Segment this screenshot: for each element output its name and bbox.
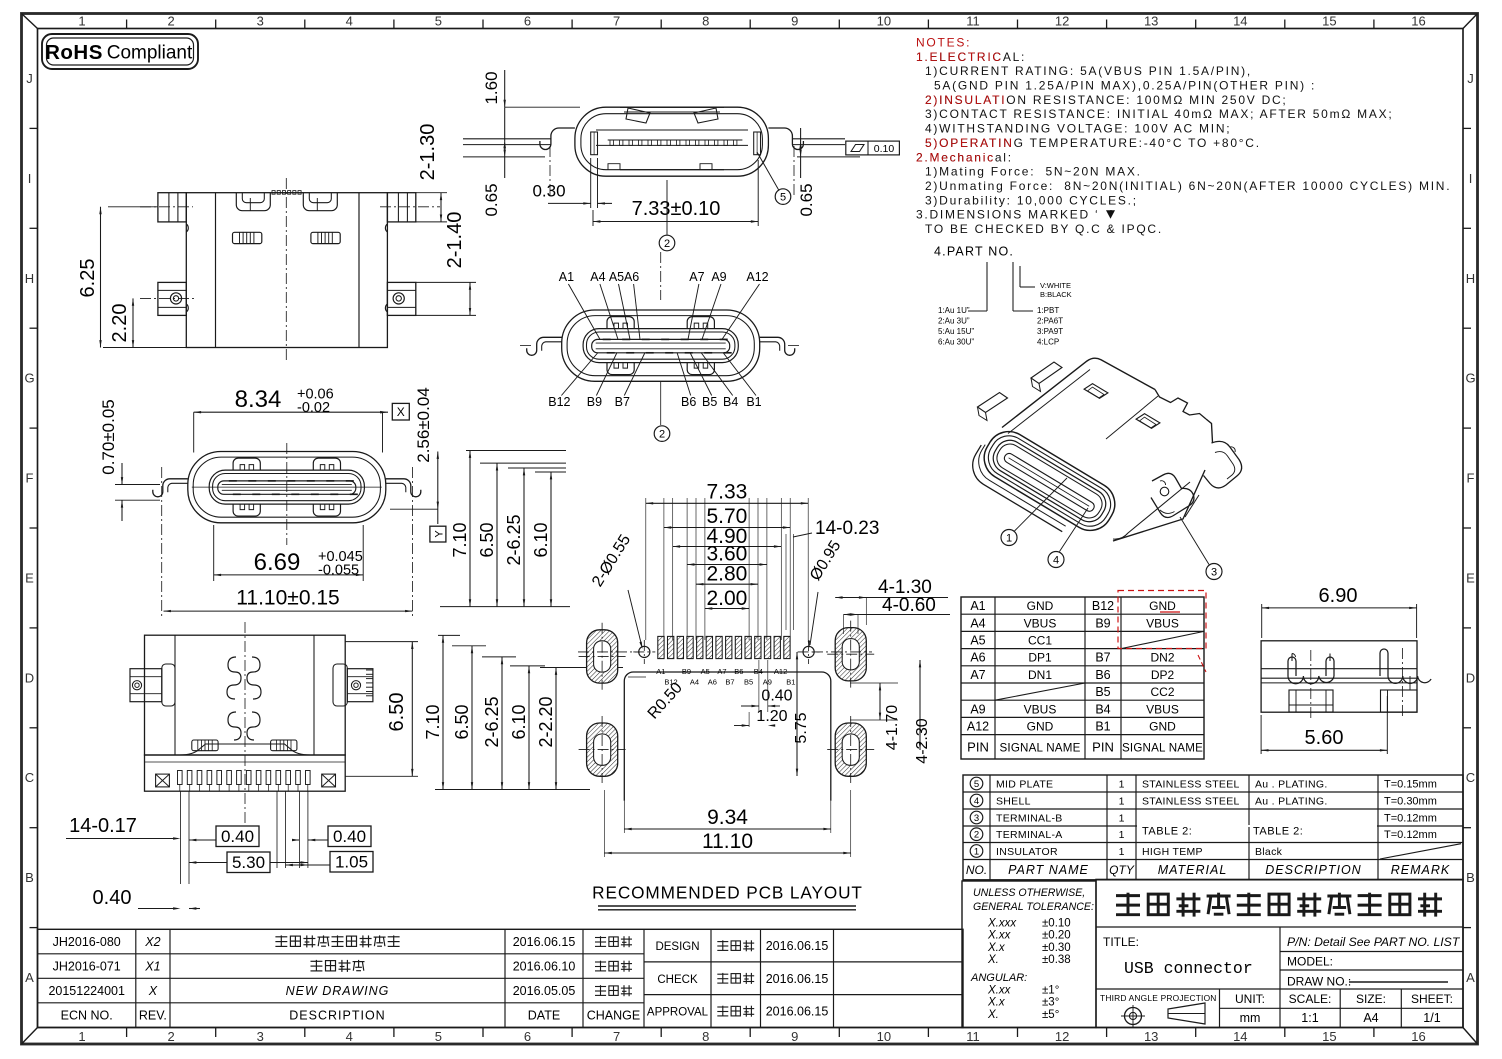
svg-text:GND: GND [1149,720,1176,734]
svg-text:0.10: 0.10 [874,143,895,155]
svg-text:A4: A4 [590,270,605,284]
svg-text:2.00: 2.00 [706,587,747,610]
svg-text:X: X [397,405,405,419]
svg-text:B7: B7 [1095,651,1110,665]
svg-text:H: H [1466,271,1475,286]
svg-text:X.x: X.x [987,942,1006,954]
svg-text:A: A [25,970,34,985]
svg-text:F: F [26,471,34,486]
svg-text:4-1.70: 4-1.70 [884,705,901,750]
svg-text:NO.: NO. [966,863,987,877]
svg-text:ECN NO.: ECN NO. [61,1009,113,1023]
svg-text:1: 1 [1119,813,1125,825]
svg-text:6.69: 6.69 [254,549,301,576]
svg-text:±3°: ±3° [1042,997,1059,1009]
svg-text:DN2: DN2 [1150,651,1174,665]
svg-text:5.60: 5.60 [1305,727,1344,749]
svg-text:15: 15 [1322,14,1336,29]
svg-text:5: 5 [435,1029,442,1044]
svg-text:INSULATOR: INSULATOR [996,846,1058,858]
svg-text:VBUS: VBUS [1024,702,1057,716]
svg-text:Au . PLATING.: Au . PLATING. [1255,796,1328,808]
svg-text:20151224001: 20151224001 [48,984,125,998]
svg-text:3: 3 [257,1029,264,1044]
svg-text:1:PBT: 1:PBT [1037,306,1059,315]
svg-text:1:1: 1:1 [1301,1011,1318,1025]
svg-text:B7: B7 [725,678,734,687]
svg-text:10: 10 [877,14,891,29]
svg-text:DESCRIPTION: DESCRIPTION [289,1009,385,1023]
svg-text:6:Au 30U”: 6:Au 30U” [938,338,974,347]
svg-text:B5: B5 [1095,685,1110,699]
svg-text:CC2: CC2 [1150,685,1174,699]
svg-text:A6: A6 [970,651,985,665]
svg-text:2)INSULATI: 2)INSULATI [925,93,1006,107]
svg-text:TERMINAL-B: TERMINAL-B [996,813,1063,825]
svg-text:2.Mechanic: 2.Mechanic [916,150,995,164]
svg-text:A9: A9 [970,702,985,716]
svg-text:16: 16 [1411,14,1425,29]
svg-text:4:LCP: 4:LCP [1037,338,1059,347]
svg-text:2-6.25: 2-6.25 [482,696,502,747]
svg-text:3: 3 [974,813,979,824]
svg-text:3: 3 [257,14,264,29]
svg-text:9.34: 9.34 [707,806,748,829]
svg-text:A1: A1 [656,667,665,676]
svg-text:I: I [28,171,32,186]
svg-text:DESCRIPTION: DESCRIPTION [1265,863,1361,877]
svg-text:C: C [1466,770,1475,785]
svg-text:6: 6 [524,1029,531,1044]
svg-text:4: 4 [974,796,979,807]
svg-text:11: 11 [966,1029,980,1044]
svg-text:CHECK: CHECK [657,974,698,986]
svg-text:6.25: 6.25 [77,259,99,298]
svg-text:4.PART NO.: 4.PART NO. [934,244,1014,258]
svg-text:11.10: 11.10 [702,830,753,853]
svg-text:STAINLESS STEEL: STAINLESS STEEL [1142,796,1240,808]
svg-text:2: 2 [659,429,665,441]
svg-text:B12: B12 [1092,599,1114,613]
svg-text:D: D [1466,670,1475,685]
svg-text:3: 3 [1211,567,1217,579]
svg-text:MID PLATE: MID PLATE [996,779,1053,791]
svg-text:11.10±0.15: 11.10±0.15 [236,587,339,610]
svg-text:2: 2 [974,830,979,841]
svg-text:B: B [1466,870,1475,885]
svg-text:SIGNAL NAME: SIGNAL NAME [1122,741,1203,754]
svg-text:5A(GND PIN 1.25A/PIN MAX),0.25: 5A(GND PIN 1.25A/PIN MAX),0.25A/PIN(OTHE… [934,79,1316,93]
svg-text:6.90: 6.90 [1319,585,1358,607]
svg-text:9: 9 [791,14,798,29]
svg-text:12: 12 [1055,14,1069,29]
svg-text:A1: A1 [559,270,574,284]
svg-text:MATERIAL: MATERIAL [1158,863,1228,877]
svg-text:A7: A7 [717,667,726,676]
svg-text:B4: B4 [723,395,738,409]
svg-text:USB connector: USB connector [1124,959,1253,978]
svg-text:12: 12 [1055,1029,1069,1044]
svg-text:3:PA9T: 3:PA9T [1037,327,1063,336]
svg-text:0.30: 0.30 [532,182,565,201]
svg-text:7: 7 [613,1029,620,1044]
svg-text:DESIGN: DESIGN [655,941,699,953]
svg-text:A9: A9 [711,270,726,284]
svg-text:14-0.17: 14-0.17 [69,815,137,837]
svg-text:B6: B6 [681,395,696,409]
svg-text:4-0.60: 4-0.60 [882,595,936,616]
svg-text:1: 1 [1006,533,1012,545]
svg-text:±0.30: ±0.30 [1042,942,1071,954]
svg-text:SIZE:: SIZE: [1356,992,1386,1006]
svg-text:B6: B6 [734,667,743,676]
svg-text:V:WHITE: V:WHITE [1040,281,1071,290]
svg-text:SHEET:: SHEET: [1411,992,1453,1006]
svg-text:APPROVAL: APPROVAL [647,1007,709,1019]
svg-text:X.: X. [987,954,999,966]
svg-text:A: A [1466,970,1475,985]
svg-text:2-1.40: 2-1.40 [444,212,466,269]
svg-text:T=0.30mm: T=0.30mm [1384,796,1437,808]
svg-text:TABLE 2:: TABLE 2: [1142,826,1192,838]
svg-text:4: 4 [346,1029,353,1044]
svg-text:13: 13 [1144,14,1158,29]
svg-text:HIGH TEMP: HIGH TEMP [1142,846,1203,858]
svg-text:B4: B4 [1095,702,1110,716]
svg-text:2-6.25: 2-6.25 [504,514,524,565]
svg-text:QTY: QTY [1109,863,1135,877]
svg-text:F: F [1467,471,1475,486]
svg-text:G: G [24,371,34,386]
svg-text:E: E [1466,571,1475,586]
svg-text:C: C [25,770,34,785]
svg-text:9: 9 [791,1029,798,1044]
svg-text:A12: A12 [967,720,989,734]
svg-text:X.xx: X.xx [987,985,1012,997]
svg-text:0.40: 0.40 [333,827,366,846]
svg-text:3)CONTACT RESISTANCE: INITIAL: 3)CONTACT RESISTANCE: INITIAL 40mΩ MAX; … [925,107,1393,121]
svg-text:PIN: PIN [1092,739,1114,754]
svg-text:2016.06.15: 2016.06.15 [766,1005,829,1019]
svg-text:5: 5 [974,779,979,790]
svg-text:2016.06.15: 2016.06.15 [766,972,829,986]
svg-text:3.DIMENSIONS MARKED ‘ ’: 3.DIMENSIONS MARKED ‘ ’ [916,208,1114,222]
svg-text:UNLESS OTHERWISE,: UNLESS OTHERWISE, [973,887,1085,899]
svg-text:A5: A5 [701,667,710,676]
svg-text:DP1: DP1 [1028,651,1052,665]
svg-text:Compliant: Compliant [107,43,193,64]
svg-text:B6: B6 [1095,668,1110,682]
svg-text:±0.20: ±0.20 [1042,930,1071,942]
svg-text:1: 1 [1119,829,1125,841]
svg-text:1: 1 [78,14,85,29]
svg-text:DATE: DATE [528,1009,560,1023]
svg-text:2)Unmating Force: 8N~20N(INIT: 2)Unmating Force: 8N~20N(INITIAL) 6N~20N… [925,179,1451,193]
svg-text:B4: B4 [754,667,763,676]
svg-text:DRAW NO.:: DRAW NO.: [1287,975,1351,989]
svg-text:10: 10 [877,1029,891,1044]
svg-text:15: 15 [1322,1029,1336,1044]
svg-text:T=0.15mm: T=0.15mm [1384,779,1437,791]
svg-text:T=0.12mm: T=0.12mm [1384,829,1437,841]
svg-text:B1: B1 [1095,720,1110,734]
svg-text:6: 6 [524,14,531,29]
svg-text:A6: A6 [708,678,717,687]
svg-text:A5: A5 [970,634,985,648]
svg-text:P/N: Detail See PART NO. LIST: P/N: Detail See PART NO. LIST [1287,935,1461,949]
svg-text:B12: B12 [548,395,570,409]
svg-text:GND: GND [1027,599,1054,613]
svg-text:2: 2 [664,238,670,250]
svg-text:D: D [25,670,34,685]
svg-text:NEW DRAWING: NEW DRAWING [286,984,390,998]
svg-text:3)Durability: 10,000 CYCLES.;: 3)Durability: 10,000 CYCLES.; [925,193,1138,207]
svg-text:-0.055: -0.055 [318,563,359,579]
svg-text:1: 1 [78,1029,85,1044]
svg-text:A5: A5 [609,270,624,284]
svg-text:TITLE:: TITLE: [1103,935,1139,949]
svg-text:1:Au 1U”: 1:Au 1U” [938,306,970,315]
svg-text:SCALE:: SCALE: [1289,992,1332,1006]
svg-text:2016.06.15: 2016.06.15 [513,935,576,949]
svg-text:14: 14 [1233,14,1247,29]
svg-text:4: 4 [1053,555,1059,567]
svg-text:2016.06.15: 2016.06.15 [766,939,829,953]
svg-text:Black: Black [1255,846,1283,858]
svg-text:VBUS: VBUS [1024,616,1057,630]
svg-text:1)CURRENT RATING: 5A(VBUS PIN: 1)CURRENT RATING: 5A(VBUS PIN 1.5A/PIN), [925,64,1252,78]
svg-text:X1: X1 [144,960,160,974]
svg-text:A6: A6 [624,270,639,284]
svg-text:1)Mating Force: 5N~20N MAX.: 1)Mating Force: 5N~20N MAX. [925,165,1142,179]
svg-text:X.: X. [987,1009,999,1021]
svg-text:0.65: 0.65 [482,183,501,216]
svg-text:ANGULAR:: ANGULAR: [970,972,1027,984]
svg-text:4)WITHSTANDING VOLTAGE: 100V A: 4)WITHSTANDING VOLTAGE: 100V AC MIN; [925,122,1231,136]
svg-text:PART NAME: PART NAME [1008,863,1089,877]
svg-text:A12: A12 [746,270,768,284]
svg-text:SHELL: SHELL [996,796,1031,808]
svg-text:2:PA6T: 2:PA6T [1037,317,1063,326]
svg-text:2.56±0.04: 2.56±0.04 [414,387,433,463]
svg-text:JH2016-080: JH2016-080 [53,935,121,949]
svg-text:E: E [25,571,34,586]
svg-text:A7: A7 [970,668,985,682]
svg-text:B:BLACK: B:BLACK [1040,290,1072,299]
svg-text:X2: X2 [144,935,160,949]
svg-text:TERMINAL-A: TERMINAL-A [996,829,1063,841]
svg-text:GENERAL TOLERANCE:: GENERAL TOLERANCE: [973,901,1094,913]
svg-text:CC1: CC1 [1028,634,1052,648]
svg-text:A12: A12 [774,667,787,676]
svg-text:Au . PLATING.: Au . PLATING. [1255,779,1328,791]
svg-text:TO BE CHECKED BY Q.C & IPQC.: TO BE CHECKED BY Q.C & IPQC. [925,222,1163,236]
svg-text:1: 1 [974,846,979,857]
svg-text:-0.02: -0.02 [297,400,330,416]
svg-text:6.10: 6.10 [531,522,551,557]
svg-text:SIGNAL NAME: SIGNAL NAME [999,741,1080,754]
svg-text:RECOMMENDED PCB LAYOUT: RECOMMENDED PCB LAYOUT [592,883,863,903]
svg-text:5: 5 [435,14,442,29]
svg-text:5:Au 15U”: 5:Au 15U” [938,327,974,336]
svg-text:6.50: 6.50 [477,522,497,557]
svg-text:0.65: 0.65 [797,183,816,216]
svg-text:X.x: X.x [987,997,1006,1009]
svg-text:6.50: 6.50 [386,693,408,732]
svg-text:X: X [148,984,158,998]
svg-text:0.40: 0.40 [761,688,792,705]
svg-text:B: B [25,870,34,885]
svg-text:G: G [1465,371,1475,386]
svg-text:J: J [1467,71,1474,86]
svg-text:13: 13 [1144,1029,1158,1044]
svg-text:A1: A1 [970,599,985,613]
svg-text:2.20: 2.20 [109,304,131,343]
svg-text:STAINLESS STEEL: STAINLESS STEEL [1142,779,1240,791]
svg-text:T=0.12mm: T=0.12mm [1384,813,1437,825]
svg-text:2.80: 2.80 [706,563,747,586]
svg-text:CHANGE: CHANGE [587,1009,640,1023]
svg-text:H: H [25,271,34,286]
svg-text:A4: A4 [1363,1011,1378,1025]
svg-text:14-0.23: 14-0.23 [815,518,879,539]
svg-text:JH2016-071: JH2016-071 [53,960,121,974]
svg-text:VBUS: VBUS [1146,702,1179,716]
svg-text:0.40: 0.40 [93,887,132,909]
svg-text:1: 1 [1119,846,1125,858]
svg-text:A9: A9 [763,678,772,687]
svg-text:B9: B9 [1095,616,1110,630]
svg-text:2-2.20: 2-2.20 [536,696,556,747]
svg-text:8: 8 [702,14,709,29]
svg-text:2: 2 [167,1029,174,1044]
svg-text:±0.10: ±0.10 [1042,918,1071,930]
svg-text:4-2.30: 4-2.30 [914,718,931,763]
svg-text:DN1: DN1 [1028,668,1052,682]
svg-text:7.10: 7.10 [450,522,470,557]
svg-text:B5: B5 [702,395,717,409]
svg-text:REV.: REV. [139,1009,167,1023]
svg-text:1.05: 1.05 [335,853,368,872]
svg-text:TABLE 2:: TABLE 2: [1253,826,1303,838]
svg-text:2016.05.05: 2016.05.05 [513,984,576,998]
svg-text:6.10: 6.10 [509,704,529,739]
svg-text:I: I [1469,171,1473,186]
svg-text:X.xx: X.xx [987,930,1012,942]
svg-text:±0.38: ±0.38 [1042,954,1071,966]
svg-text:±5°: ±5° [1042,1009,1059,1021]
svg-text:0.40: 0.40 [221,827,254,846]
svg-text:B9: B9 [587,395,602,409]
svg-text:8.34: 8.34 [235,386,282,413]
svg-text:mm: mm [1240,1011,1261,1025]
svg-text:5)OPERATIN: 5)OPERATIN [925,136,1014,150]
svg-text:±1°: ±1° [1042,985,1059,997]
svg-text:7.10: 7.10 [423,704,443,739]
svg-text:1: 1 [1119,779,1125,791]
svg-text:VBUS: VBUS [1146,616,1179,630]
svg-text:NOTES:: NOTES: [916,36,971,50]
svg-text:14: 14 [1233,1029,1247,1044]
svg-text:8: 8 [702,1029,709,1044]
svg-text:RoHS: RoHS [45,41,103,64]
svg-text:REMARK: REMARK [1391,863,1450,877]
svg-text:2: 2 [167,14,174,29]
svg-text:1.20: 1.20 [756,708,787,725]
svg-text:1.60: 1.60 [482,71,501,104]
svg-text:0.70±0.05: 0.70±0.05 [99,399,118,475]
svg-text:PIN: PIN [967,739,989,754]
svg-text:B9: B9 [682,667,691,676]
svg-text:DP2: DP2 [1151,668,1175,682]
svg-text:2:Au 3U”: 2:Au 3U” [938,317,970,326]
svg-text:B7: B7 [615,395,630,409]
svg-text:7: 7 [613,14,620,29]
svg-text:B1: B1 [786,678,795,687]
svg-text:1.ELECTRIC: 1.ELECTRIC [916,50,1003,64]
svg-text:16: 16 [1411,1029,1425,1044]
svg-text:GND: GND [1149,599,1176,613]
svg-text:7.33±0.10: 7.33±0.10 [632,198,721,220]
svg-text:A4: A4 [690,678,699,687]
svg-text:X.xxx: X.xxx [987,918,1017,930]
svg-text:B1: B1 [746,395,761,409]
svg-text:A4: A4 [970,616,985,630]
svg-text:5: 5 [780,192,786,204]
svg-text:2-1.30: 2-1.30 [417,124,439,181]
svg-text:11: 11 [966,14,980,29]
svg-text:J: J [26,71,33,86]
svg-text:7.33: 7.33 [706,480,747,503]
svg-text:GND: GND [1027,720,1054,734]
svg-text:B5: B5 [744,678,753,687]
svg-text:5.75: 5.75 [793,712,810,743]
svg-text:1/1: 1/1 [1423,1011,1440,1025]
svg-text:MODEL:: MODEL: [1287,955,1333,969]
svg-text:4: 4 [346,14,353,29]
svg-text:1: 1 [1119,796,1125,808]
svg-text:Y: Y [433,530,445,538]
svg-text:A7: A7 [689,270,704,284]
svg-text:THIRD ANGLE PROJECTION: THIRD ANGLE PROJECTION [1100,993,1217,1003]
svg-text:UNIT:: UNIT: [1235,992,1265,1006]
svg-text:5.30: 5.30 [232,853,265,872]
svg-text:6.50: 6.50 [452,704,472,739]
svg-text:2016.06.10: 2016.06.10 [513,960,576,974]
